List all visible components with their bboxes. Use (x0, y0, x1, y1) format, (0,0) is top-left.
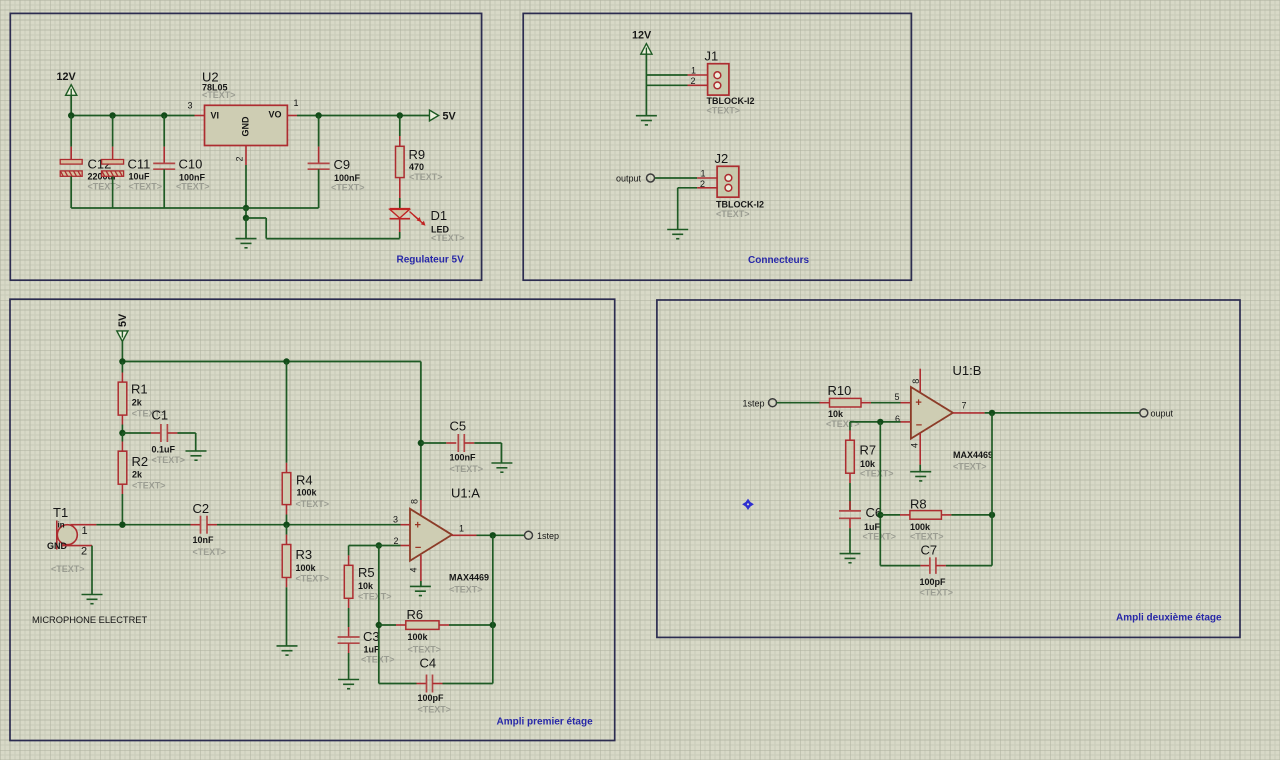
junction rail/R1 (119, 358, 125, 364)
svg-text:10k: 10k (828, 409, 844, 419)
pin 3 (VI) of U2 (195, 115, 205, 117)
wire pin2 junction (379, 545, 401, 547)
svg-text:C7: C7 (921, 542, 938, 557)
svg-text:10nF: 10nF (193, 535, 215, 545)
resistor R3 100k (286, 525, 288, 535)
svg-text:<TEXT>: <TEXT> (88, 182, 122, 192)
power symbol 12V (box2) (641, 44, 652, 55)
junction pin2/feedback (376, 542, 382, 548)
svg-text:U1:B: U1:B (953, 363, 982, 378)
svg-text:<TEXT>: <TEXT> (450, 464, 484, 474)
wire output to terminal ouput (985, 412, 1140, 414)
resistor R9 470 (399, 116, 401, 137)
svg-text:Regulateur 5V: Regulateur 5V (397, 255, 465, 266)
svg-text:100nF: 100nF (334, 173, 361, 183)
svg-text:TBLOCK-I2: TBLOCK-I2 (707, 96, 755, 106)
svg-text:<TEXT>: <TEXT> (408, 645, 442, 655)
svg-text:output: output (616, 174, 642, 184)
junction 12V/rail/C12 (68, 112, 74, 118)
power symbol 5V down (box3) (117, 331, 128, 342)
svg-text:1step: 1step (537, 531, 559, 541)
terminal ouput (1140, 409, 1148, 417)
power arrow 5V (box1) (430, 110, 439, 121)
pin 2 of T1 (62, 545, 92, 547)
junction gnd rail (243, 205, 249, 211)
pin 2 (GND) of U2 (245, 146, 247, 166)
svg-text:VO: VO (269, 109, 282, 119)
power symbol 12V (box1) (66, 85, 77, 96)
svg-text:2k: 2k (132, 398, 143, 408)
svg-text:1: 1 (701, 169, 706, 179)
svg-text:5: 5 (895, 392, 900, 402)
svg-text:100pF: 100pF (920, 577, 947, 587)
ground (C5) (491, 463, 512, 472)
capacitor C5 100nF branch (421, 442, 446, 444)
svg-text:D1: D1 (431, 208, 448, 223)
svg-text:C11: C11 (128, 157, 151, 172)
junction output/feedback (box4) (989, 410, 995, 416)
svg-text:<TEXT>: <TEXT> (449, 585, 483, 595)
capacitor C1 0.1uF branch (122, 432, 150, 434)
connector J1 TBLOCK-I2 body (708, 64, 729, 95)
svg-text:R9: R9 (409, 147, 426, 162)
ground (box1 centre) (236, 239, 257, 248)
pin 2 of J2 (697, 187, 725, 189)
wire 12V arrow to rail (70, 95, 72, 115)
op-amp U1:A power pin 4 (420, 555, 422, 581)
capacitor C9 (100nF) (318, 116, 320, 147)
feedback vertical wire (378, 546, 380, 684)
svg-text:<TEXT>: <TEXT> (860, 469, 894, 479)
wire 1step to R10 (777, 402, 820, 404)
pin 1 of J2 (697, 177, 725, 179)
svg-text:<TEXT>: <TEXT> (193, 547, 227, 557)
svg-text:3: 3 (188, 101, 193, 111)
wire to ground symbol (245, 218, 247, 239)
pin 2 of U1:A (401, 545, 411, 547)
svg-text:10k: 10k (358, 581, 374, 591)
svg-text:470: 470 (409, 162, 424, 172)
subcircuit frame: Ampli premier etage (10, 299, 615, 740)
svg-text:<TEXT>: <TEXT> (331, 183, 365, 193)
wire pin6 to R7 branch (850, 421, 901, 423)
blue origin marker (742, 499, 754, 510)
svg-text:<TEXT>: <TEXT> (296, 574, 330, 584)
svg-text:5V: 5V (443, 110, 457, 122)
terminal 1step (box3) (525, 531, 533, 539)
svg-text:2: 2 (81, 545, 87, 557)
svg-text:1: 1 (459, 523, 464, 533)
resistor R6 100k (379, 624, 396, 626)
capacitor C12 (2200uF electrolytic) (70, 116, 72, 147)
resistor R7 10k (849, 422, 851, 431)
wire J2 pin2 to ground 1 (678, 187, 697, 189)
wire pin2 to R5 (349, 545, 379, 547)
ground (box2 bottom) (667, 230, 688, 239)
wire output to J2 pin1 (655, 177, 697, 179)
svg-text:<TEXT>: <TEXT> (707, 106, 741, 116)
subcircuit frame: Ampli deuxieme etage (657, 300, 1240, 637)
junction R1/R2/C1 (119, 430, 125, 436)
junction R4/R3/signal (283, 522, 289, 528)
LED cathode pin (399, 219, 401, 232)
svg-text:<TEXT>: <TEXT> (418, 705, 452, 715)
capacitor C6 1uF (849, 501, 851, 511)
terminal output (647, 174, 655, 182)
capacitor C4 100pF (379, 683, 417, 685)
pin 3 of U1:A (401, 524, 411, 526)
junction R8/output leg (box4) (989, 512, 995, 518)
svg-text:<TEXT>: <TEXT> (358, 592, 392, 602)
ground (U1:A pin4) (410, 586, 431, 595)
junction rail/C11 (109, 112, 115, 118)
wire 12V down to ground (645, 54, 647, 115)
svg-text:GND: GND (241, 116, 251, 137)
svg-text:<TEXT>: <TEXT> (152, 455, 186, 465)
svg-text:100k: 100k (408, 632, 429, 642)
resistor R10 10k (820, 402, 830, 404)
resistor R1 2k (121, 362, 123, 373)
pin 7 of U1:B output (953, 412, 985, 414)
svg-text:+: + (915, 397, 921, 409)
svg-text:TBLOCK-I2: TBLOCK-I2 (716, 200, 764, 210)
svg-text:<TEXT>: <TEXT> (431, 233, 465, 243)
LED D1 (390, 209, 411, 219)
svg-text:1: 1 (294, 98, 299, 108)
svg-text:Ampli deuxième étage: Ampli deuxième étage (1116, 613, 1222, 624)
ground (C3) (338, 680, 359, 689)
svg-text:C10: C10 (179, 157, 203, 172)
svg-text:<TEXT>: <TEXT> (863, 532, 897, 542)
svg-text:C1: C1 (152, 408, 169, 423)
svg-text:0.1uF: 0.1uF (152, 445, 176, 455)
svg-text:8: 8 (409, 499, 419, 504)
svg-text:C5: C5 (450, 418, 467, 433)
wire feedback vertical to output (box4) (991, 413, 993, 566)
svg-text:1uF: 1uF (364, 644, 381, 654)
wire gnd to LED return 3 (266, 238, 400, 240)
svg-text:<TEXT>: <TEXT> (176, 182, 210, 192)
junction rail/R4 (283, 358, 289, 364)
wire T1 pin2 to ground (91, 546, 93, 595)
svg-text:<TEXT>: <TEXT> (826, 419, 860, 429)
svg-text:C2: C2 (193, 501, 210, 516)
svg-text:10uF: 10uF (129, 172, 151, 182)
svg-text:MAX4469: MAX4469 (449, 573, 489, 583)
op-amp U1:A power pin 8 (420, 362, 422, 501)
resistor R5 10k branch (348, 546, 350, 556)
svg-text:<TEXT>: <TEXT> (910, 532, 944, 542)
svg-text:<TEXT>: <TEXT> (51, 564, 85, 574)
wire J2 pin2 to ground 2 (677, 188, 679, 230)
svg-text:1: 1 (82, 525, 88, 537)
svg-text:R1: R1 (131, 381, 148, 396)
svg-text:2k: 2k (132, 470, 143, 480)
svg-text:R3: R3 (296, 547, 313, 562)
svg-text:R5: R5 (358, 565, 375, 580)
svg-text:Connecteurs: Connecteurs (748, 255, 810, 266)
svg-text:−: − (916, 419, 922, 431)
ground (U1:B pin4) (910, 472, 931, 481)
svg-text:1: 1 (691, 66, 696, 76)
ground (C6) (840, 554, 861, 563)
junction rail/C10 (161, 112, 167, 118)
op-amp U1:A body (410, 509, 452, 561)
svg-text:2: 2 (691, 76, 696, 86)
pin 1 (VO) of U2 (287, 115, 297, 117)
svg-text:+: + (415, 519, 421, 531)
pin 1 of T1 (71, 524, 97, 526)
junction rail/R9 (397, 112, 403, 118)
svg-text:C3: C3 (363, 629, 380, 644)
svg-text:R10: R10 (828, 383, 852, 398)
pin 5 of U1:B (901, 402, 911, 404)
resistor R4 100k (286, 362, 288, 463)
wire gnd to LED return 2 (265, 218, 267, 239)
capacitor C7 100pF (880, 565, 920, 567)
pin 2 of J1 (688, 84, 715, 86)
svg-text:<TEXT>: <TEXT> (132, 481, 166, 491)
svg-text:C4: C4 (420, 655, 437, 670)
svg-text:2: 2 (235, 156, 245, 161)
capacitor C10 (100nF) (163, 116, 165, 147)
wire main input rail (71, 115, 194, 117)
op-amp U1:B body (911, 387, 953, 439)
svg-text:MAX4469: MAX4469 (953, 450, 993, 460)
svg-text:100k: 100k (910, 522, 931, 532)
junction R6/output leg (490, 622, 496, 628)
feedback vertical wire (box4) (879, 422, 881, 566)
svg-text:<TEXT>: <TEXT> (920, 588, 954, 598)
svg-text:R2: R2 (132, 454, 149, 469)
wire R10 to pin5 (871, 402, 901, 404)
svg-text:C9: C9 (334, 157, 351, 172)
op-amp U1:B power pin 4 (919, 433, 921, 465)
svg-text:<TEXT>: <TEXT> (361, 655, 395, 665)
capacitor C3 1uF (348, 627, 350, 637)
svg-text:R7: R7 (860, 443, 877, 458)
svg-text:<TEXT>: <TEXT> (716, 209, 750, 219)
resistor R2 2k (121, 433, 123, 442)
svg-text:10k: 10k (860, 459, 876, 469)
junction feedback/R6 (376, 622, 382, 628)
svg-text:R6: R6 (407, 607, 424, 622)
ground (C1) (186, 451, 207, 460)
wire bottom rail box1 (71, 207, 318, 209)
svg-text:7: 7 (962, 400, 967, 410)
wire 12V to J1 pin1 (646, 74, 687, 76)
pin 1 of U1:A output (452, 534, 477, 536)
svg-text:4: 4 (409, 567, 419, 572)
ground (R3) (277, 646, 298, 655)
junction gnd node (243, 215, 249, 221)
terminal 1step (box4) (769, 399, 777, 407)
svg-text:J2: J2 (715, 151, 729, 166)
svg-text:100pF: 100pF (418, 693, 445, 703)
svg-text:MICROPHONE ELECTRET: MICROPHONE ELECTRET (32, 615, 148, 625)
LED D1 light arrows (410, 212, 426, 226)
capacitor C2 10nF (191, 524, 201, 526)
subcircuit frame: Regulateur 5V (10, 13, 481, 280)
junction rail/C9 (315, 112, 321, 118)
svg-text:3: 3 (393, 515, 398, 525)
wire gnd to LED return 1 (246, 217, 266, 219)
svg-text:U1:A: U1:A (451, 486, 480, 501)
svg-text:12V: 12V (632, 30, 652, 42)
junction R2/mic line (119, 522, 125, 528)
resistor R8 100k (880, 514, 900, 516)
svg-text:J1: J1 (705, 49, 719, 64)
svg-text:4: 4 (910, 443, 920, 448)
subcircuit frame: Connecteurs (523, 13, 911, 280)
wire output rail 5V (297, 115, 430, 117)
svg-text:<TEXT>: <TEXT> (202, 90, 236, 100)
svg-text:8: 8 (911, 379, 921, 384)
wire mic to C2 (96, 524, 190, 526)
svg-text:12V: 12V (57, 71, 77, 83)
svg-text:T1: T1 (53, 505, 68, 520)
svg-text:100k: 100k (296, 563, 317, 573)
capacitor C11 (10uF electrolytic) (112, 116, 114, 147)
svg-text:in: in (58, 521, 65, 530)
wire output to terminal 1step (477, 534, 525, 536)
connector J2 TBLOCK-I2 body (717, 166, 739, 197)
junction pin6/feedback (877, 419, 883, 425)
svg-text:5V: 5V (117, 313, 129, 327)
ground (box2 top) (636, 116, 657, 125)
svg-text:<TEXT>: <TEXT> (129, 182, 163, 192)
svg-text:100k: 100k (297, 488, 318, 498)
junction feedback/R8 (877, 512, 883, 518)
svg-text:<TEXT>: <TEXT> (296, 499, 330, 509)
pin 1 of J1 (688, 74, 715, 76)
op-amp U1:B power pin 8 (919, 369, 921, 392)
junction pin8 wire/C5 (418, 440, 424, 446)
ground (T1) (82, 595, 103, 604)
svg-text:<TEXT>: <TEXT> (409, 172, 443, 182)
wire to J1 pin2 (646, 84, 687, 86)
svg-text:<TEXT>: <TEXT> (953, 462, 987, 472)
svg-text:−: − (415, 542, 421, 554)
pin 6 of U1:B (901, 421, 911, 423)
svg-text:Ampli premier étage: Ampli premier étage (497, 717, 594, 728)
wire output feedback vertical (492, 535, 494, 683)
svg-text:R4: R4 (296, 473, 313, 488)
wire U2 gnd down (245, 165, 247, 208)
regulator U2 78L05 body (205, 105, 288, 145)
svg-text:ouput: ouput (1151, 409, 1174, 419)
svg-text:2: 2 (394, 536, 399, 546)
microphone T1 body (57, 525, 77, 545)
wire 5V arrow to rail (box3) (121, 342, 123, 362)
svg-text:VI: VI (211, 110, 220, 120)
junction output/feedback (490, 532, 496, 538)
svg-text:1uF: 1uF (864, 522, 881, 532)
svg-text:R8: R8 (910, 497, 927, 512)
wire LED to return (399, 232, 401, 239)
svg-text:100nF: 100nF (450, 453, 477, 463)
wire gnd stub (245, 208, 247, 218)
svg-text:2: 2 (700, 179, 705, 189)
wire top rail box3 (122, 361, 421, 363)
svg-text:1step: 1step (743, 399, 765, 409)
